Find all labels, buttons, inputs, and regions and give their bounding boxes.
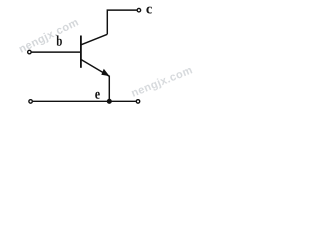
node: emitter junction dot: [107, 99, 112, 104]
wire: collector up and right: [107, 10, 137, 34]
terminal: collector (top right, open circle): [137, 8, 141, 12]
transistor Q1 base bar: [80, 36, 82, 68]
label b: [56, 35, 62, 45]
wire: bottom rail: [33, 100, 136, 102]
transistor Q1 collector diagonal: [81, 34, 107, 45]
terminal: bottom left (open circle): [29, 100, 32, 104]
transistor Q1 emitter diagonal with arrow: [81, 60, 109, 77]
label e: [95, 92, 100, 99]
wire: base lead: [32, 51, 81, 53]
terminal: base (left, open circle): [28, 50, 32, 54]
terminal: bottom right (open circle): [136, 100, 140, 104]
label c: [146, 7, 152, 14]
svg-text:nengjx.com: nengjx.com: [130, 64, 195, 100]
wire: emitter down to rail: [108, 76, 110, 102]
svg-text:nengjx.com: nengjx.com: [17, 16, 81, 55]
